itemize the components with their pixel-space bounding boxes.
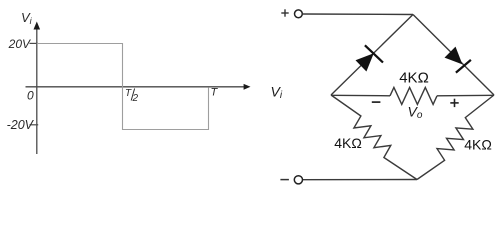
svg-text:T: T: [125, 88, 132, 99]
wire middle right (resistor to right node): [437, 94, 494, 97]
tick -20V: [30, 124, 39, 126]
svg-text:2: 2: [132, 93, 139, 104]
svg-text:0: 0: [27, 89, 34, 103]
wire bottom (bottom node to - terminal): [303, 179, 417, 181]
x-axis arrowhead: [244, 84, 251, 90]
terminal - sign: [280, 179, 289, 181]
tick 20V: [30, 42, 39, 44]
wire edge top-right (top node to right node): [413, 15, 494, 96]
wire middle left (left node to resistor): [331, 94, 390, 97]
y-axis: [36, 29, 38, 154]
terminal - circle: [294, 176, 302, 184]
resistor R1 middle 4K: [390, 87, 437, 104]
diode D1 (left arm): [356, 45, 384, 71]
wire top (+ to top node): [302, 13, 413, 16]
svg-text:Vo: Vo: [408, 103, 423, 121]
y-axis arrowhead: [34, 22, 41, 30]
resistor R3 bottom-right 4K (includes edge wire): [417, 95, 494, 180]
diode D2 (right arm): [445, 47, 471, 73]
resistor R2 bottom-left 4K (includes edge wire): [331, 95, 417, 180]
svg-text:4KΩ: 4KΩ: [334, 135, 362, 151]
x-axis: [26, 86, 245, 88]
svg-text:Vi: Vi: [21, 10, 33, 26]
svg-text:20V: 20V: [8, 37, 31, 51]
label minus (Vo polarity): [372, 101, 381, 103]
label plus (Vo polarity): [450, 99, 458, 107]
svg-text:-20V: -20V: [7, 118, 35, 132]
wire square wave: [37, 44, 209, 130]
svg-text:T: T: [211, 87, 219, 99]
terminal + circle: [295, 10, 303, 18]
label T/2: [125, 88, 139, 104]
svg-text:Vi: Vi: [271, 84, 283, 102]
terminal + sign: [281, 9, 288, 16]
svg-text:4KΩ: 4KΩ: [464, 136, 492, 152]
svg-text:4KΩ: 4KΩ: [399, 70, 429, 87]
wire edge top-left (left node to top node): [331, 15, 413, 96]
